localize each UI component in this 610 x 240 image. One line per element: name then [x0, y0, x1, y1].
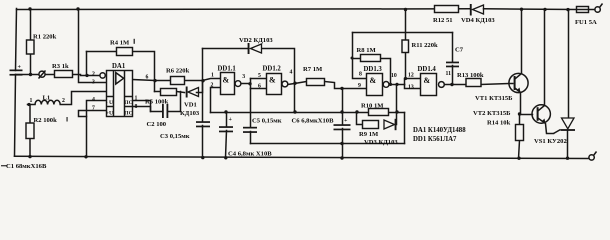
wire C3 top: [202, 81, 204, 122]
svg-text:+: +: [344, 118, 348, 124]
svg-text:DA1 К140УД1488: DA1 К140УД1488: [413, 127, 466, 134]
wire DA1 pin 4 to ground: [87, 101, 107, 157]
resistor R2: [26, 123, 34, 139]
wire left rail below C1: [15, 75, 16, 157]
capacitor C2: [162, 104, 168, 118]
svg-text:6: 6: [146, 74, 149, 80]
junction node at 250,84: [248, 82, 251, 85]
svg-text:4: 4: [290, 69, 293, 75]
wire R9 jog from mid rail: [357, 113, 363, 125]
junction node at 397,84: [395, 83, 398, 86]
wire R6 to VD2-C3 node: [185, 80, 203, 82]
junction node at 520,114: [518, 112, 521, 115]
svg-text:R12 51: R12 51: [433, 17, 453, 24]
svg-text:10: 10: [391, 73, 397, 79]
wire R4 feedback loop right: [133, 52, 155, 92]
wire jog up to DD1.4 pin 12: [405, 79, 421, 85]
svg-text:9: 9: [358, 83, 361, 89]
logic gate DD1.3: [367, 74, 390, 96]
svg-text:C3 0,15мк: C3 0,15мк: [160, 133, 190, 140]
wire R11 bottom to pin 12 wire: [405, 53, 407, 79]
svg-text:C4 6,8мк Х10В: C4 6,8мк Х10В: [228, 151, 272, 158]
svg-text:12: 12: [408, 72, 414, 78]
svg-text:DD1.4: DD1.4: [418, 66, 437, 73]
paper background: [0, 0, 610, 171]
svg-text:VS1 КУ202: VS1 КУ202: [534, 138, 567, 145]
svg-text:R6 220k: R6 220k: [166, 68, 190, 75]
wire VD2 feedback left segment: [203, 48, 249, 50]
wire DD1.2 out drop to mid rail: [294, 84, 296, 113]
wire R8 right drop: [381, 59, 391, 85]
wire C6 node to ground: [342, 144, 344, 159]
wire DD1.2 input tie: [250, 79, 252, 89]
svg-text:FU1 5A: FU1 5A: [575, 19, 597, 26]
wire DD1.3 out to DD1.4 jog: [389, 84, 405, 86]
wire VD1 cathode to node: [197, 81, 203, 93]
junction node at 342,112: [340, 110, 343, 113]
wire VS1 cathode to ground: [567, 131, 569, 159]
wire C5 bottom lead: [250, 132, 252, 144]
junction node at 342,144: [340, 142, 343, 145]
diode VD2: [248, 43, 262, 54]
svg-text:VT1 КТ315Б: VT1 КТ315Б: [475, 95, 513, 102]
svg-text:&: &: [223, 76, 230, 85]
wire L1 right to DA1 lower-left pin: [60, 92, 106, 105]
svg-text:+: +: [18, 65, 22, 71]
junction node at 568,158: [566, 157, 569, 160]
wire DA1 pin 8 to C2: [133, 107, 163, 112]
svg-text:R14 10k: R14 10k: [487, 120, 511, 127]
svg-text:VD4 КД103: VD4 КД103: [461, 17, 495, 24]
wire top loop line over DD1.3-DD1.4: [353, 32, 453, 34]
wire VT1 collector: [516, 9, 522, 79]
svg-text:5: 5: [258, 73, 261, 79]
svg-text:КД103: КД103: [180, 110, 200, 117]
fuse FU1: [577, 7, 589, 13]
logic gate DD1.1: [221, 73, 241, 95]
wire top bus right of VD4 to fuse: [484, 8, 577, 11]
capacitor C5: [243, 127, 257, 133]
wire R3 to DA1 pin 2: [73, 75, 100, 76]
wire VS1 anode from bus: [568, 10, 570, 118]
junction node at 295,83: [293, 82, 296, 85]
svg-text:1: 1: [135, 95, 138, 101]
junction node at 342,88: [340, 87, 343, 90]
wire C4 bottom to ground: [226, 131, 227, 158]
junction node at 78,9: [76, 7, 79, 10]
svg-text:1: 1: [211, 72, 214, 78]
output terminal (top right): [595, 4, 603, 13]
wire left supply rail: [16, 9, 17, 71]
wire lower return line: [251, 143, 405, 145]
wire C1 to input terminal: [16, 74, 39, 76]
resistor R7: [307, 79, 325, 86]
junction node at 406,10: [404, 8, 407, 11]
junction node at 226,158: [224, 156, 227, 159]
svg-text:C6 6,8мкХ10В: C6 6,8мкХ10В: [292, 118, 335, 125]
junction node at 295,112: [293, 110, 296, 113]
wire DA1 pin 7: [79, 111, 107, 117]
svg-text:6: 6: [258, 83, 261, 89]
svg-text:VD3 КД103: VD3 КД103: [364, 139, 398, 146]
svg-text:C5 0,15мк: C5 0,15мк: [252, 118, 282, 125]
svg-text:ПС: ПС: [124, 100, 132, 106]
junction node at 357,112: [355, 110, 358, 113]
wire input terminal to R3: [46, 74, 55, 76]
svg-text:&: &: [370, 76, 377, 85]
svg-text:VT2 КТ315Б: VT2 КТ315Б: [473, 110, 511, 117]
wire VT2 emitter to VS1 gate: [539, 119, 554, 134]
scan tick after R2 label: [67, 117, 68, 122]
logic gate DD1.4: [421, 74, 445, 96]
input terminal (left): [39, 71, 46, 79]
svg-text:+: +: [229, 117, 233, 123]
junction node at 203,158: [201, 156, 204, 159]
wire bus drop x78 to DA1 pin 3: [79, 9, 107, 83]
svg-text:C7: C7: [455, 47, 464, 54]
svg-text:R3 1k: R3 1k: [52, 63, 69, 70]
junction node at 29,104: [27, 103, 30, 106]
junction node at 155,81: [153, 79, 156, 82]
svg-text:R4 1M: R4 1M: [110, 40, 130, 47]
diode VD1: [186, 87, 199, 98]
svg-text:VD1: VD1: [184, 102, 197, 109]
resistor R5: [161, 89, 177, 96]
wire R1 bottom: [30, 54, 32, 75]
wire R7 to DD1.3 pin 9: [325, 82, 367, 89]
wire R2 bottom to ground: [29, 139, 31, 158]
wire VD3 cathode riser: [396, 113, 398, 125]
wire jog down to DD1.4 pin 13: [405, 85, 421, 89]
wire C5 riser: [250, 89, 252, 127]
transistor VT2: [532, 105, 550, 124]
junction node at 519,158: [517, 157, 520, 160]
wire R5 to VD1: [177, 92, 185, 93]
scan mark before C1 label: [1, 165, 8, 166]
junction node at 352,58: [351, 57, 354, 60]
wire DD1.2 out to R7: [288, 82, 307, 85]
wire x404 drop: [404, 113, 406, 144]
svg-text:&: &: [269, 76, 276, 85]
wire C7 bottom: [452, 66, 454, 85]
wire node to DD1.1 pin 1: [203, 79, 221, 81]
wire C7 top: [452, 33, 454, 62]
resistor R10: [369, 109, 389, 116]
junction node at 568,10: [566, 8, 569, 11]
wire R11 top from bus: [405, 10, 407, 41]
wire fuse to output terminal: [589, 9, 595, 11]
wire DD1.1 out to DD1.2 inputs: [241, 83, 251, 85]
svg-text:3: 3: [242, 74, 245, 80]
diode VD3: [384, 119, 397, 130]
svg-text:R5 100k: R5 100k: [145, 99, 169, 106]
junction node at 342,158: [340, 156, 343, 159]
wire L1 left stub to R2: [28, 104, 36, 106]
wire DD1.2 pin 5: [251, 78, 267, 80]
svg-text:+U: +U: [106, 110, 113, 116]
svg-text:&: &: [424, 76, 431, 85]
svg-text:2: 2: [62, 98, 65, 104]
inductor L1: [35, 100, 60, 104]
junction node at 87,75: [85, 74, 88, 77]
svg-text:R2 100k: R2 100k: [34, 117, 58, 124]
capacitor C3: [196, 121, 210, 127]
junction node at 30,157: [28, 155, 31, 158]
wire R4 feedback left drop: [86, 52, 88, 76]
resistor R14: [516, 125, 524, 141]
capacitor C1: [10, 70, 23, 76]
junction node at 522,9: [520, 8, 523, 11]
wire x352 drop to DD1.3 pin 8: [353, 33, 367, 79]
svg-text:8: 8: [135, 104, 138, 110]
wire VD2 anode line down: [202, 49, 204, 81]
junction node at 226,112: [224, 110, 227, 113]
svg-text:C2 100: C2 100: [147, 121, 167, 128]
svg-text:R13 100k: R13 100k: [457, 72, 484, 79]
capacitor C6: [334, 124, 351, 130]
transistor VT1: [509, 73, 529, 92]
svg-text:1: 1: [30, 98, 33, 104]
wire R1 top: [30, 9, 32, 43]
wire VT1 emitter to VT2 base: [516, 89, 533, 115]
junction node at 30,74: [29, 73, 32, 76]
junction node at 397,112: [395, 110, 398, 113]
capacitor C7: [446, 62, 459, 68]
resistor R9: [363, 121, 379, 129]
wire top supply bus: [17, 8, 471, 11]
junction node at 86,157: [84, 155, 87, 158]
svg-text:R10 1M: R10 1M: [361, 102, 384, 109]
wire C4 top: [226, 113, 228, 127]
svg-text:13: 13: [408, 85, 414, 91]
svg-text:DD1.1: DD1.1: [218, 66, 237, 73]
svg-text:7: 7: [92, 105, 95, 111]
wire C2 right to R5-VD1 node: [169, 92, 181, 112]
resistor R12: [435, 6, 459, 13]
resistor R3: [55, 71, 73, 78]
wire DD1.2 pin 6: [251, 88, 267, 90]
svg-text:C1 68мкХ16В: C1 68мкХ16В: [6, 163, 47, 170]
wire DA1 pin 1: [133, 101, 151, 112]
output terminal (bottom right): [589, 152, 597, 161]
wire R8 left stub: [353, 58, 361, 60]
wire R5 branch left: [155, 91, 161, 93]
svg-text:DD1 К561ЛА7: DD1 К561ЛА7: [413, 136, 457, 143]
logic gate DD1.2: [267, 74, 288, 95]
svg-text:4: 4: [92, 97, 95, 103]
capacitor C4: [219, 126, 233, 132]
svg-text:2: 2: [211, 83, 214, 89]
svg-text:DD1.3: DD1.3: [364, 66, 383, 73]
wire VT2 collector: [539, 10, 545, 111]
wire DD1.4 out to R13: [445, 84, 467, 86]
svg-text:ПС: ПС: [124, 110, 132, 116]
svg-text:R9 1M: R9 1M: [359, 131, 379, 138]
resistor R1: [27, 40, 35, 54]
resistor R8: [361, 55, 381, 62]
junction node at 203,81: [201, 79, 204, 82]
wire R14 drop: [519, 115, 521, 125]
wire R6 branch left: [155, 80, 171, 82]
wire VD2 feedback right segment: [263, 49, 295, 84]
svg-text:R7 1M: R7 1M: [303, 66, 323, 73]
junction node at 452,84: [450, 83, 453, 86]
wire C6 bottom lead: [342, 129, 344, 144]
resistor R4: [117, 48, 133, 56]
wire R2 top lead: [29, 105, 31, 124]
svg-text:L1: L1: [43, 95, 51, 102]
svg-text:3: 3: [92, 79, 95, 85]
svg-text:-U: -U: [106, 100, 113, 106]
wire R14 bottom to ground: [519, 141, 520, 159]
resistor R11: [402, 40, 409, 53]
svg-text:R11 220k: R11 220k: [412, 42, 439, 49]
junction node at 30,9: [28, 7, 31, 10]
wire DA1 pin 6 to R6 node: [133, 80, 155, 81]
svg-text:DD1.2: DD1.2: [263, 66, 282, 73]
svg-text:VD2 КД103: VD2 КД103: [239, 37, 273, 44]
wire R10 riser to out wire: [396, 85, 398, 113]
wire DD1.1 pin 2 drop: [211, 88, 221, 113]
wire R13 to VT1 base: [481, 84, 509, 85]
resistor R13: [466, 79, 481, 87]
thyristor VS1: [554, 118, 576, 134]
op-amp DA1: [100, 71, 133, 117]
resistor R6: [171, 77, 185, 85]
svg-text:8: 8: [359, 71, 362, 77]
svg-text:R1 220k: R1 220k: [33, 34, 57, 41]
junction node at 545,9: [543, 8, 546, 11]
wire bottom ground bus: [15, 156, 589, 158]
scan tick after R4 label: [134, 39, 135, 44]
wire mid rail (DD1.1 pin2 to x404): [211, 112, 405, 114]
svg-text:11: 11: [446, 71, 452, 77]
svg-text:2: 2: [92, 72, 95, 78]
svg-text:DA1: DA1: [112, 63, 126, 70]
wire C3 bottom to ground: [202, 126, 204, 158]
wire C6 upper riser: [342, 89, 344, 113]
wire C6 top plate lead: [342, 113, 344, 125]
diode VD4: [470, 4, 484, 16]
junction node at 406,78: [404, 77, 407, 80]
wire R4 feedback loop left: [87, 51, 117, 53]
junction node at 390,84: [389, 83, 392, 86]
svg-text:R8 1M: R8 1M: [357, 47, 377, 54]
